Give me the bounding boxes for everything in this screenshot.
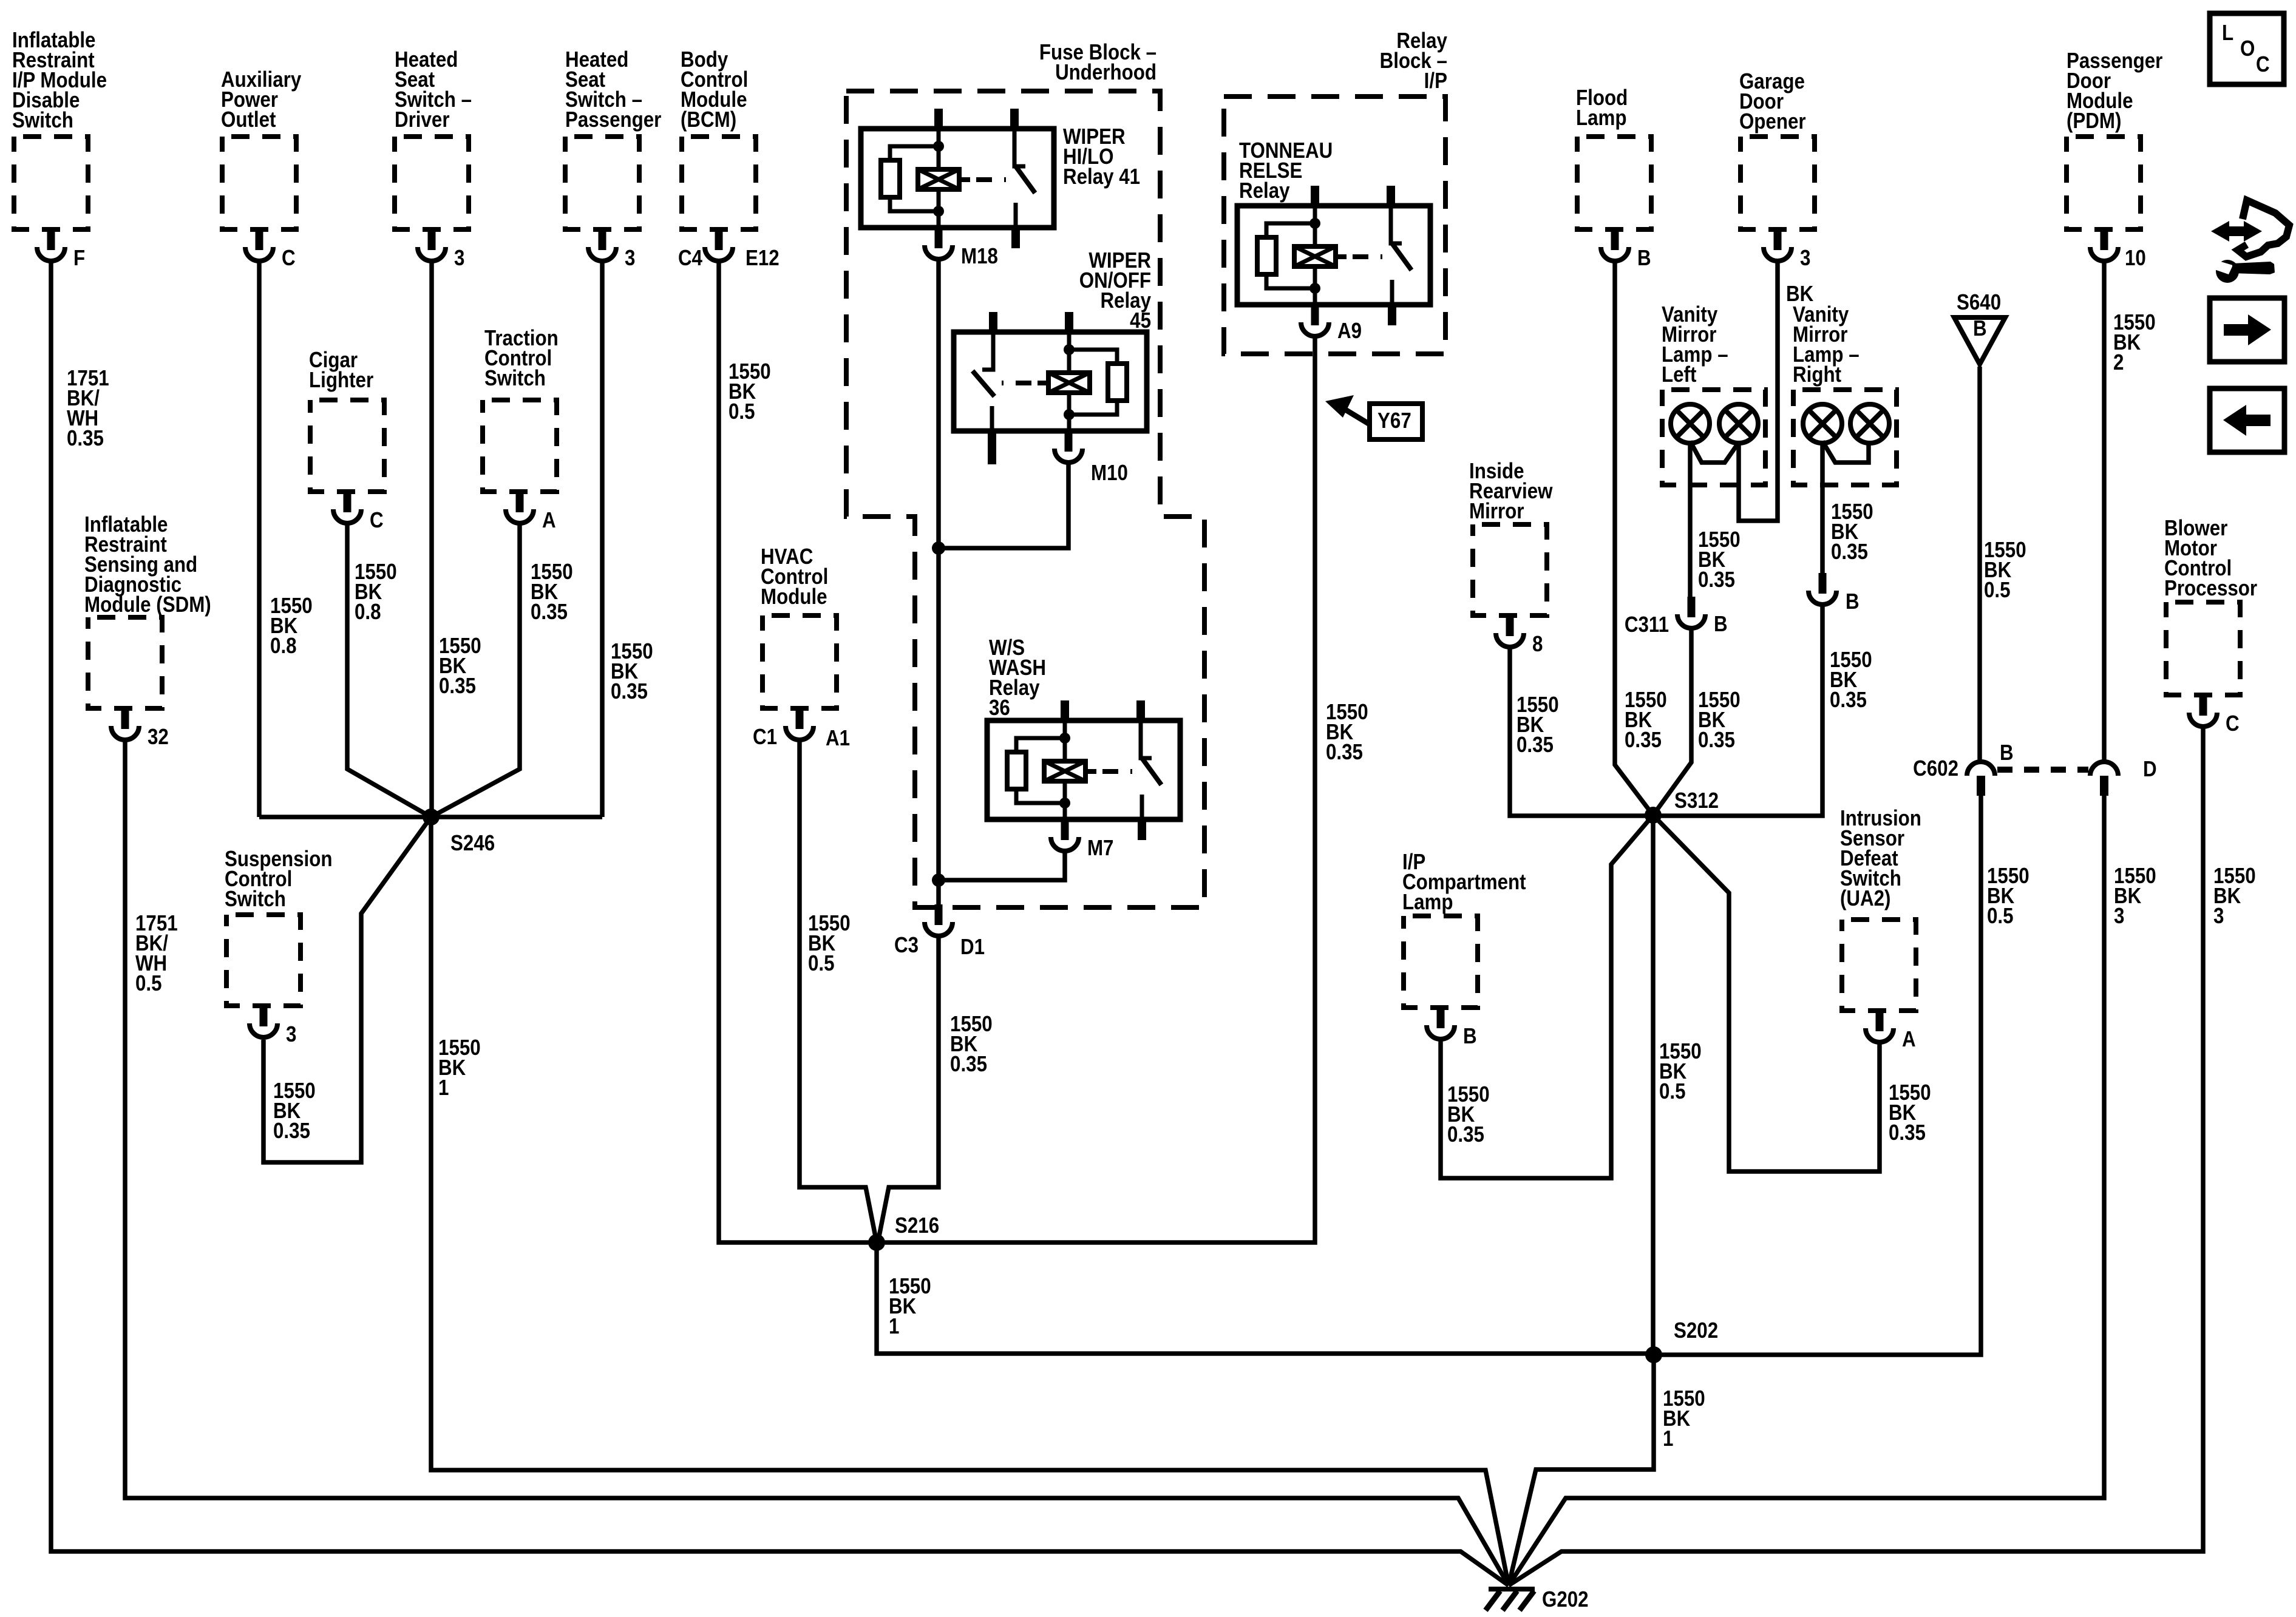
callout Y67	[1325, 395, 1422, 439]
svg-text:Relay: Relay	[1239, 178, 1290, 203]
wire intrusion to S312	[1653, 815, 1880, 1171]
wire S246 to suspension	[263, 817, 431, 1162]
svg-text:M7: M7	[1087, 836, 1114, 861]
relay WIPER ON/OFF Relay 45	[954, 248, 1151, 464]
lamp vanity right 1	[1803, 404, 1842, 443]
svg-text:0.8: 0.8	[270, 634, 297, 659]
wire M18 down	[936, 261, 941, 904]
svg-text:A1: A1	[826, 726, 850, 751]
svg-text:B: B	[1846, 589, 1860, 614]
svg-text:0.35: 0.35	[1698, 728, 1735, 753]
svg-text:S640: S640	[1957, 290, 2001, 315]
wire Aux to S246	[257, 262, 262, 817]
svg-text:C: C	[2256, 52, 2270, 77]
svg-text:C: C	[2226, 711, 2240, 736]
label 1751 BK/ WH 0.35	[67, 366, 109, 451]
svg-text:0.35: 0.35	[1326, 740, 1363, 765]
svg-text:Module (SDM): Module (SDM)	[84, 592, 211, 617]
wire C311 to S312	[1653, 630, 1691, 815]
svg-text:M18: M18	[961, 244, 998, 269]
module Vanity Mirror Lamp - Left	[1662, 302, 1765, 485]
svg-text:Passenger: Passenger	[565, 107, 661, 132]
wire S312 to S202	[1651, 815, 1656, 1355]
svg-text:(PDM): (PDM)	[2067, 109, 2121, 134]
svg-text:0.35: 0.35	[439, 674, 476, 699]
svg-text:C: C	[282, 246, 296, 271]
wire M7 to wire	[939, 853, 1065, 880]
svg-text:C602: C602	[1913, 756, 1958, 781]
wire S640 to C602	[1977, 367, 1982, 762]
svg-text:D1: D1	[960, 935, 985, 960]
svg-text:C4: C4	[678, 246, 702, 271]
svg-text:0.5: 0.5	[729, 399, 755, 424]
svg-text:S312: S312	[1674, 788, 1719, 813]
label 1550 BK 0.35 c311 above	[1698, 527, 1741, 592]
svg-text:Right: Right	[1793, 362, 1841, 387]
svg-text:8: 8	[1532, 632, 1543, 657]
svg-text:3: 3	[625, 246, 635, 271]
lamp vanity left 1	[1671, 404, 1710, 443]
module Inflatable Restraint I/P Module Disable Switch	[12, 28, 107, 271]
splice S202	[1645, 1318, 1718, 1363]
svg-text:(BCM): (BCM)	[681, 107, 736, 132]
svg-text:Y67: Y67	[1377, 408, 1411, 433]
svg-text:S202: S202	[1674, 1318, 1718, 1343]
svg-text:0.5: 0.5	[1659, 1079, 1686, 1104]
label 1550 BK 0.35 mirror	[1517, 693, 1559, 758]
svg-text:A: A	[542, 508, 556, 533]
splice S216	[868, 1213, 939, 1251]
module Inside Rearview Mirror	[1469, 459, 1553, 657]
svg-text:0.5: 0.5	[1987, 904, 2014, 929]
module Auxiliary Power Outlet	[221, 67, 301, 271]
connector C602 D	[2090, 757, 2157, 796]
label 1550 BK 0.35 vanity right above	[1831, 500, 1873, 564]
svg-text:C: C	[370, 508, 384, 533]
label 1550 BK 0.35 intrusion	[1889, 1080, 1931, 1145]
label 1550 BK 3 c602d	[2114, 864, 2156, 929]
wire SDM to G202	[125, 742, 1509, 1585]
svg-text:3: 3	[1800, 246, 1810, 271]
connector M10	[1055, 431, 1128, 486]
splice S640 triangle	[1954, 290, 2005, 364]
svg-text:45: 45	[1130, 308, 1151, 333]
wire S246 bus	[259, 815, 602, 819]
wire F to G202	[51, 262, 1509, 1585]
label BK garage	[1786, 282, 1814, 307]
module Intrusion Sensor Defeat Switch (UA2)	[1840, 806, 1921, 1052]
module Blower Motor Control Processor	[2164, 516, 2257, 736]
wire C602B to S202	[1654, 796, 1981, 1355]
svg-text:0.5: 0.5	[808, 951, 835, 976]
label 1550 BK 3 blower	[2213, 864, 2256, 929]
svg-text:C3: C3	[894, 933, 919, 958]
module Garage Door Opener	[1739, 69, 1815, 271]
svg-text:B: B	[2000, 741, 2014, 765]
svg-text:0.5: 0.5	[135, 971, 162, 996]
svg-text:Outlet: Outlet	[221, 107, 276, 132]
svg-text:A: A	[1902, 1027, 1916, 1052]
wire S246 to G202	[431, 817, 1509, 1585]
label 1550 BK 0.35 suspension	[273, 1079, 316, 1144]
svg-text:B: B	[1637, 246, 1651, 271]
svg-text:L: L	[2222, 21, 2233, 46]
splice S312	[1645, 788, 1719, 824]
wire vanity right down	[1820, 441, 1825, 573]
svg-text:Lamp: Lamp	[1402, 890, 1453, 915]
wire vanity right to S312	[1660, 606, 1822, 816]
svg-text:Opener: Opener	[1739, 109, 1806, 134]
label 1550 BK 0.35 driver	[439, 634, 481, 699]
wire S202 to G202	[1509, 1355, 1654, 1585]
wire BCM to S216	[719, 262, 877, 1242]
label 1550 BK 0.5 s640	[1984, 538, 2026, 603]
svg-text:S216: S216	[895, 1213, 939, 1238]
module Inflatable Restraint Sensing and Diagnostic Module (SDM)	[84, 512, 211, 750]
svg-text:Mirror: Mirror	[1469, 499, 1524, 524]
lamp vanity left 2	[1719, 404, 1758, 443]
svg-text:(UA2): (UA2)	[1840, 886, 1890, 911]
svg-text:32: 32	[148, 725, 169, 750]
svg-text:0.35: 0.35	[1698, 568, 1735, 592]
module Flood Lamp	[1576, 86, 1651, 271]
splice S246	[423, 808, 495, 856]
label 1550 BK 0.35 c3d1	[950, 1012, 993, 1077]
connector M7	[1051, 819, 1113, 861]
label 1550 BK 0.8 cigar	[355, 560, 397, 625]
svg-text:0.35: 0.35	[1625, 728, 1662, 753]
ground G202	[1486, 1587, 1589, 1612]
svg-text:C311: C311	[1625, 612, 1669, 637]
relay TONNEAU RELSE Relay	[1237, 138, 1430, 325]
wire blower to G202	[1509, 728, 2203, 1585]
connector C311 B	[1625, 597, 1728, 637]
svg-text:0.8: 0.8	[355, 600, 381, 625]
fuse block underhood outline	[846, 40, 1204, 907]
module Cigar Lighter	[309, 348, 384, 533]
svg-text:Switch: Switch	[12, 108, 73, 133]
label 1550 BK 0.35 flood	[1625, 688, 1667, 753]
svg-text:Module: Module	[761, 585, 827, 609]
icon LOC box	[2210, 13, 2284, 84]
svg-text:S246: S246	[450, 831, 495, 856]
svg-text:10: 10	[2125, 246, 2146, 271]
connector C3 D1	[894, 904, 985, 960]
svg-text:3: 3	[454, 246, 464, 271]
connector vanity right B	[1809, 573, 1860, 614]
svg-text:B: B	[1714, 612, 1728, 637]
wire PDM to C602D	[2102, 262, 2107, 762]
wire vanity right link	[1822, 441, 1869, 463]
module Vanity Mirror Lamp - Right	[1793, 302, 1897, 485]
wire HVAC to S216	[800, 742, 877, 1242]
svg-text:Left: Left	[1662, 362, 1696, 387]
wire cigar to S246	[347, 524, 431, 817]
svg-text:0.35: 0.35	[611, 679, 648, 704]
svg-text:E12: E12	[746, 246, 779, 271]
connector M18	[925, 228, 998, 269]
label 1550 BK 0.8 aux	[270, 594, 313, 659]
junction dot M7 join	[932, 873, 945, 887]
svg-text:36: 36	[989, 696, 1010, 720]
svg-text:0.35: 0.35	[67, 426, 104, 451]
relay W/S WASH Relay 36	[987, 636, 1180, 840]
label 1550 BK 0.35 c311 below	[1698, 688, 1741, 753]
module HVAC Control Module	[753, 544, 850, 751]
wire A9 to S216	[878, 338, 1315, 1242]
wire passenger to S246	[600, 262, 605, 817]
svg-text:0.5: 0.5	[1984, 578, 2011, 603]
svg-text:0.35: 0.35	[1889, 1120, 1926, 1145]
svg-text:3: 3	[286, 1022, 296, 1047]
wire C3D1 to S216	[878, 938, 939, 1242]
icon next arrow box	[2210, 298, 2284, 362]
wire traction to S246	[431, 524, 520, 817]
svg-text:1: 1	[1663, 1426, 1673, 1451]
label 1550 BK 0.5 hvac	[808, 911, 851, 976]
svg-text:Switch: Switch	[225, 887, 286, 912]
wire M10 to M18 wire	[939, 464, 1068, 548]
svg-text:I/P: I/P	[1424, 69, 1447, 93]
wire vanity left link	[1690, 441, 1739, 463]
label 1550 BK 0.35 traction	[531, 560, 573, 625]
label 1550 BK 0.5 s312	[1659, 1039, 1702, 1104]
wire C602 dashed link	[1997, 767, 2088, 773]
svg-text:Driver: Driver	[395, 107, 450, 132]
svg-text:A9: A9	[1337, 319, 1362, 344]
label 1550 BK 1 s246	[438, 1036, 481, 1100]
svg-text:G202: G202	[1542, 1587, 1589, 1612]
svg-text:M10: M10	[1091, 461, 1128, 486]
label 1550 BK 0.35 vanity right below	[1830, 648, 1872, 713]
svg-text:0.35: 0.35	[531, 600, 568, 625]
svg-text:0.35: 0.35	[273, 1119, 310, 1144]
label 1550 BK 2 pdm	[2113, 310, 2156, 375]
junction dot M18/M10	[932, 541, 945, 555]
wire C602D to G202	[1509, 796, 2104, 1585]
svg-text:F: F	[73, 246, 85, 271]
label 1550 BK 0.5 c602b	[1987, 864, 2029, 929]
svg-text:O: O	[2240, 36, 2255, 61]
label 1550 BK 1 s216	[889, 1274, 931, 1339]
module Heated Seat Switch - Driver	[395, 47, 472, 271]
svg-text:Lamp: Lamp	[1576, 106, 1627, 131]
relay block I/P outline	[1224, 29, 1447, 354]
wire IP lamp to S312	[1441, 815, 1653, 1178]
module I/P Compartment Lamp	[1402, 850, 1526, 1049]
label 1550 BK 0.35 a9	[1326, 700, 1368, 765]
icon prev arrow box	[2210, 388, 2284, 452]
svg-text:0.35: 0.35	[950, 1052, 987, 1077]
module Heated Seat Switch - Passenger	[565, 47, 661, 271]
svg-text:C1: C1	[753, 725, 777, 750]
module Body Control Module (BCM)	[678, 47, 779, 271]
wire S216 down to S202	[877, 1242, 1654, 1354]
svg-text:2: 2	[2113, 350, 2124, 375]
svg-text:B: B	[1973, 316, 1987, 341]
svg-text:1: 1	[438, 1076, 449, 1100]
svg-text:Lighter: Lighter	[309, 368, 373, 393]
svg-text:3: 3	[2114, 904, 2124, 929]
wire flood to S312	[1615, 262, 1653, 815]
wire vanity left down	[1688, 441, 1693, 597]
module Passenger Door Module (PDM)	[2067, 49, 2162, 271]
svg-text:B: B	[1463, 1024, 1477, 1049]
module Traction Control Switch	[483, 326, 559, 533]
svg-text:3: 3	[2213, 904, 2224, 929]
svg-text:D: D	[2143, 757, 2157, 782]
label 1550 BK 1 s202	[1663, 1386, 1705, 1451]
svg-text:Relay 41: Relay 41	[1063, 164, 1140, 189]
svg-text:Underhood: Underhood	[1055, 60, 1156, 85]
connector C602 B	[1913, 741, 2013, 796]
connector A9	[1301, 305, 1362, 344]
label 1550 BK 0.35 iplamp	[1447, 1082, 1490, 1147]
svg-text:0.35: 0.35	[1517, 733, 1554, 758]
relay WIPER HI/LO Relay 41	[861, 109, 1140, 248]
svg-text:1: 1	[889, 1314, 899, 1339]
label 1550 BK 0.35 passenger	[611, 639, 653, 704]
icon hand with wrench	[2211, 200, 2289, 283]
wire garage to vanity left	[1739, 262, 1778, 521]
svg-text:0.35: 0.35	[1831, 540, 1868, 564]
svg-text:0.35: 0.35	[1830, 688, 1867, 713]
wire mirror to S312	[1510, 649, 1646, 816]
svg-text:Switch: Switch	[484, 366, 546, 391]
lamp vanity right 2	[1850, 404, 1889, 443]
wire driver to S246	[429, 262, 434, 817]
svg-text:Processor: Processor	[2164, 576, 2257, 601]
label 1550 BK 0.5 bcm	[729, 359, 771, 424]
label 1751 BK/ WH 0.5	[135, 911, 178, 996]
module Suspension Control Switch	[225, 847, 332, 1047]
svg-text:0.35: 0.35	[1447, 1122, 1484, 1147]
